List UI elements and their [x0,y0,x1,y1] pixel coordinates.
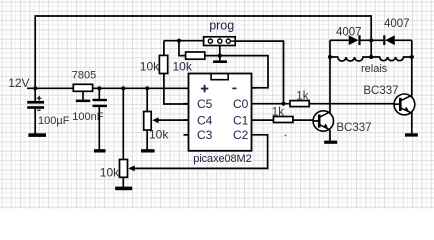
svg-text:C3: C3 [197,128,213,142]
svg-text:C5: C5 [197,97,213,111]
svg-text:12V: 12V [8,76,29,90]
svg-text:C2: C2 [233,128,249,142]
svg-text:7805: 7805 [72,70,96,82]
svg-text:1k: 1k [272,107,284,119]
svg-text:C1: C1 [233,113,249,127]
svg-text:1k: 1k [296,91,308,103]
svg-text:10k: 10k [100,165,120,179]
svg-text:100µF: 100µF [38,115,70,127]
svg-text:4007: 4007 [384,18,410,30]
svg-text:BC337: BC337 [336,122,371,134]
svg-text:10k: 10k [173,60,193,74]
svg-text:BC337: BC337 [363,85,398,97]
svg-text:C4: C4 [197,113,213,127]
svg-text:picaxe08M2: picaxe08M2 [193,153,251,165]
svg-text:4007: 4007 [336,26,362,38]
svg-text:100nF: 100nF [72,111,103,123]
svg-text:C0: C0 [233,97,249,111]
svg-text:10k: 10k [149,128,169,142]
svg-text:relais: relais [361,63,388,75]
svg-text:10k: 10k [140,60,160,74]
svg-text:prog: prog [209,19,234,33]
